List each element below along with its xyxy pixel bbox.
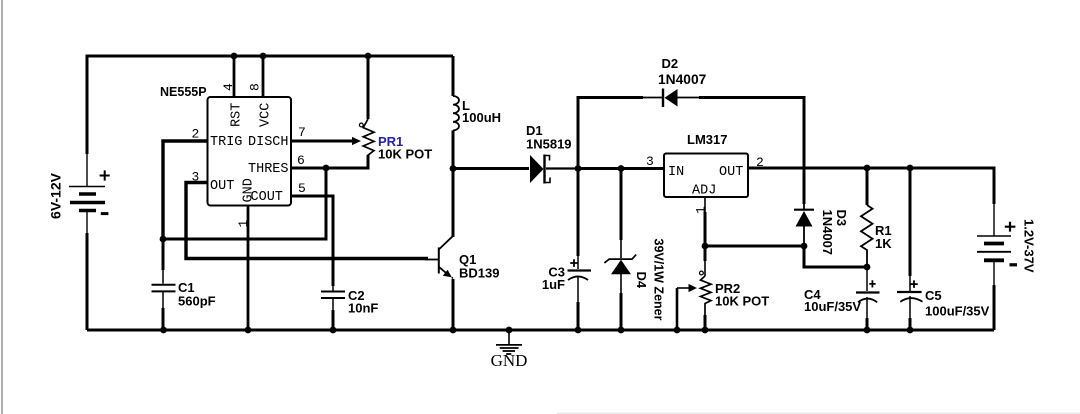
svg-text:1N5819: 1N5819 <box>526 137 572 152</box>
svg-text:2: 2 <box>192 127 200 142</box>
resistor R1 1K <box>861 168 892 267</box>
svg-text:D4: D4 <box>634 272 649 289</box>
svg-text:10nF: 10nF <box>348 301 378 316</box>
svg-text:1N4007: 1N4007 <box>658 72 707 87</box>
wire: D2 anode to OUT node <box>699 98 804 205</box>
wire: node A to THRES branch <box>163 168 326 239</box>
svg-text:TRIG: TRIG <box>210 135 242 150</box>
junction node L/Q1/D1 <box>450 165 457 172</box>
svg-text:1K: 1K <box>875 236 892 251</box>
wire: GND pin1 to bottom rail <box>247 206 250 330</box>
capacitor C4 10uF/35V <box>804 267 880 330</box>
svg-text:THRES: THRES <box>248 162 289 177</box>
wire: TRIG pin2 to node A <box>163 141 207 239</box>
zener diode D4 <box>604 169 665 331</box>
transistor Q1 BD139 <box>425 169 499 331</box>
svg-text:RST: RST <box>230 103 245 127</box>
svg-text:6: 6 <box>297 153 305 168</box>
wire: ADJ rail to D3 <box>705 245 804 248</box>
diode D1 1N5819 schottky <box>526 123 578 184</box>
wire: D2 branch riser <box>578 98 643 169</box>
svg-text:OUT: OUT <box>210 179 234 194</box>
svg-text:10K POT: 10K POT <box>378 147 432 162</box>
wire: OUT pin3 to Q1 base <box>186 183 428 259</box>
potentiometer PR1 <box>291 56 432 168</box>
junction node A (TRIG/C1) <box>160 236 167 243</box>
wire: ADJ pin to rail <box>704 198 706 213</box>
svg-text:5: 5 <box>298 181 306 196</box>
svg-text:GND: GND <box>491 351 528 370</box>
wire: D1 node to IN pin <box>578 167 664 170</box>
svg-text:BD139: BD139 <box>459 266 499 281</box>
junction node D1/D2/C3 <box>575 165 582 172</box>
svg-text:ADJ: ADJ <box>692 184 716 199</box>
wire: ADJ jog to R1 bottom <box>804 246 867 267</box>
ground <box>491 331 528 370</box>
svg-text:1N4007: 1N4007 <box>820 210 835 256</box>
junction node ADJ <box>702 243 709 250</box>
svg-text:4: 4 <box>221 83 236 91</box>
capacitor C2 10nF <box>321 286 378 330</box>
junction node R1/C4 <box>864 264 871 271</box>
svg-text:VCC: VCC <box>259 103 274 127</box>
capacitor C1 560pF <box>152 239 216 330</box>
svg-text:100uH: 100uH <box>462 110 501 125</box>
IC U1 NE555P <box>160 83 306 228</box>
potentiometer PR2 <box>677 246 769 330</box>
diode D3 1N4007 <box>794 204 849 255</box>
IC U2 LM317 <box>646 132 764 214</box>
svg-text:39V/1W Zener: 39V/1W Zener <box>652 239 666 321</box>
wire: THRES pin6 to PR1 bottom <box>291 155 368 168</box>
junction node top rail pin4 <box>231 53 238 60</box>
svg-text:GND: GND <box>242 178 257 202</box>
junction node zener <box>618 165 625 172</box>
wire: V+ top rail <box>87 56 453 154</box>
svg-text:OUT: OUT <box>719 165 743 180</box>
svg-text:1uF: 1uF <box>542 277 565 292</box>
wire: node to D1 anode <box>453 167 529 170</box>
junction dots bottom rail <box>160 327 913 334</box>
wire: pin8 stub <box>262 56 265 97</box>
svg-text:D2: D2 <box>662 56 679 71</box>
junction node OUT rail R1 <box>864 165 871 172</box>
junction node THRES <box>323 165 330 172</box>
junction node top rail pin8 <box>260 53 267 60</box>
svg-text:560pF: 560pF <box>178 294 216 309</box>
svg-text:8: 8 <box>248 83 263 91</box>
svg-text:3: 3 <box>646 154 654 169</box>
wire: node to C3 <box>577 169 580 257</box>
wire: COUT pin5 to C2 <box>291 196 333 286</box>
capacitor C3 1uF <box>542 256 591 330</box>
svg-text:C5: C5 <box>925 288 942 303</box>
svg-text:1.2V-37V: 1.2V-37V <box>1022 219 1037 273</box>
wire: bottom ground rail <box>87 329 994 332</box>
wire: pin4 stub <box>233 56 236 97</box>
svg-text:NE555P: NE555P <box>160 85 207 99</box>
svg-text:DISCH: DISCH <box>248 135 289 150</box>
battery 6V-12V <box>48 154 110 233</box>
svg-text:100uF/35V: 100uF/35V <box>925 304 990 319</box>
svg-text:6V-12V: 6V-12V <box>48 172 64 219</box>
junction node D3 anode <box>801 243 808 250</box>
svg-text:LM317: LM317 <box>687 132 727 147</box>
wire: OUT pin2 rail to right battery <box>748 168 994 204</box>
svg-text:D3: D3 <box>834 210 849 227</box>
battery 1.2V-37V <box>977 204 1037 285</box>
svg-text:IN: IN <box>668 165 684 180</box>
svg-text:7: 7 <box>298 125 306 140</box>
svg-text:10uF/35V: 10uF/35V <box>804 299 861 314</box>
diode D2 1N4007 <box>643 56 707 107</box>
capacitor C5 100uF/35V <box>897 168 990 330</box>
wire: right battery minus to bottom rail <box>993 285 996 330</box>
junction node OUT rail C5 <box>907 165 914 172</box>
junction node top rail PR1 <box>365 53 372 60</box>
wire: battery minus to bottom rail <box>86 233 89 330</box>
inductor L 100uH <box>453 56 501 168</box>
svg-text:10K POT: 10K POT <box>715 294 769 309</box>
